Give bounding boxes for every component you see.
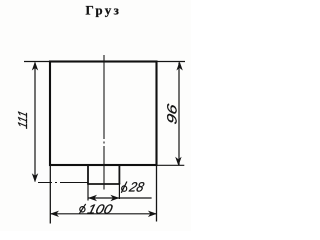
dimension phi28: label phi symbol — [121, 182, 127, 193]
dimension 111: top arrowhead — [32, 62, 38, 71]
dimension 96: bottom arrowhead — [175, 157, 181, 166]
dimension 111: bottom arrowhead — [32, 173, 38, 182]
boss: lower protrusion bottom edge — [87, 183, 120, 185]
extension line: boss left below — [87, 184, 89, 201]
boss: lower protrusion right edge — [118, 165, 120, 184]
dimension phi100: right arrowhead — [148, 211, 157, 217]
dimension 96: top arrowhead — [176, 62, 182, 71]
extension line: boss right below — [118, 184, 120, 199]
centerline (vertical axis) — [103, 55, 105, 190]
dimension 96: line — [178, 63, 180, 166]
svg-text:111: 111 — [15, 109, 30, 130]
svg-text:100: 100 — [86, 202, 115, 217]
extension line: bottom-right — [157, 164, 185, 166]
svg-text:Груз: Груз — [86, 2, 119, 17]
dimension 111: line — [34, 63, 36, 182]
svg-text:28: 28 — [127, 180, 146, 195]
extension line: phi100 left — [49, 165, 51, 224]
extension line: top-left — [24, 61, 50, 63]
boss: lower protrusion left edge — [87, 165, 89, 184]
extension line: top-right — [157, 61, 186, 63]
dimension phi100: line — [50, 213, 157, 215]
body: main cylinder outline — [50, 62, 157, 166]
dash-dot reference line to boss bottom — [38, 182, 88, 184]
extension line: phi100 right — [156, 165, 158, 222]
dimension phi28: left arrowhead — [88, 195, 97, 201]
dimension phi100: label phi symbol — [79, 204, 85, 214]
dimension phi28: line with tail — [88, 197, 152, 199]
dimension phi100: left arrowhead — [50, 211, 59, 217]
svg-text:96: 96 — [165, 102, 180, 126]
dimension phi28: right arrowhead — [110, 195, 119, 201]
